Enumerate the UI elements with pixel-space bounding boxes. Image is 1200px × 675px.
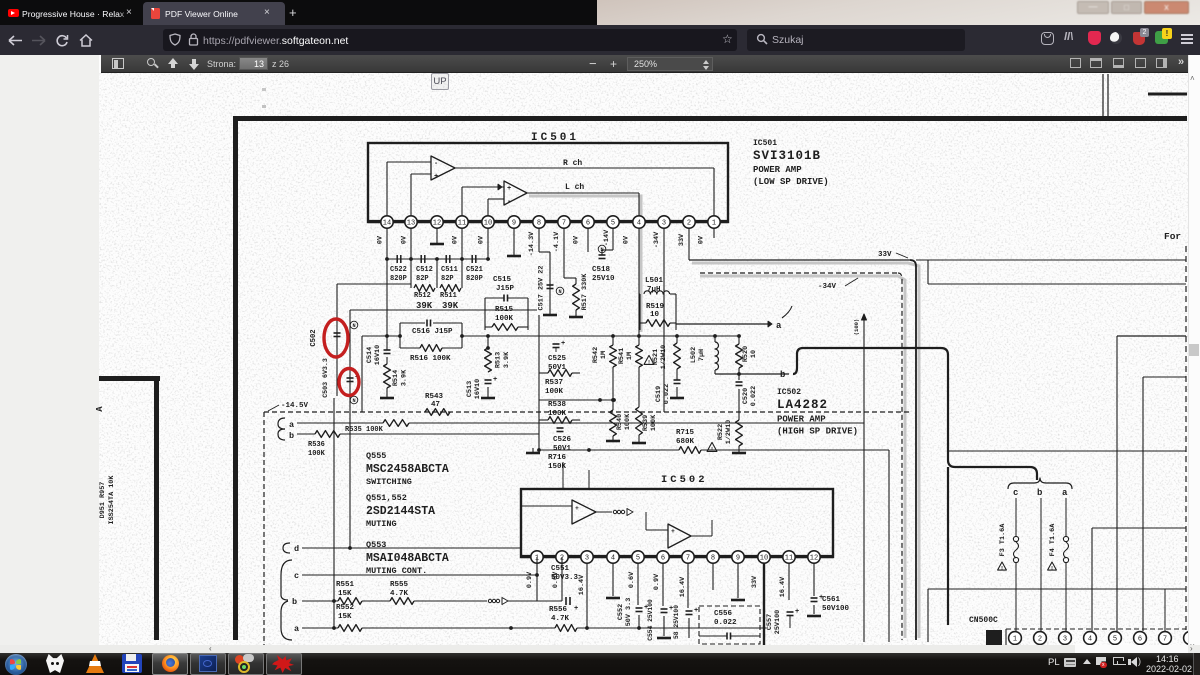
- svg-text:C518: C518: [592, 266, 611, 274]
- svg-text:4: 4: [1088, 636, 1092, 644]
- svg-text:7: 7: [1163, 636, 1167, 644]
- svg-text:+: +: [434, 173, 438, 181]
- svg-text:(LOW SP DRIVE): (LOW SP DRIVE): [753, 177, 829, 187]
- svg-text:SVI3101B: SVI3101B: [753, 149, 821, 163]
- svg-text:16V10: 16V10: [474, 379, 482, 399]
- svg-text:100K: 100K: [650, 414, 658, 431]
- svg-text:1M: 1M: [600, 351, 608, 359]
- svg-text:0V: 0V: [478, 235, 486, 244]
- svg-text:R556: R556: [549, 606, 568, 614]
- svg-text:c: c: [1013, 488, 1018, 498]
- svg-text:a: a: [289, 420, 294, 430]
- svg-text:1/2W10: 1/2W10: [725, 420, 733, 444]
- svg-text:C521: C521: [466, 266, 483, 274]
- svg-text:C526: C526: [553, 436, 572, 444]
- svg-text:7μH: 7μH: [698, 349, 706, 361]
- svg-text:C512: C512: [416, 266, 433, 274]
- svg-text:c: c: [294, 571, 299, 581]
- svg-text:Q555: Q555: [366, 451, 386, 461]
- svg-text:5: 5: [1113, 636, 1117, 644]
- svg-text:R514: R514: [392, 370, 400, 386]
- svg-text:A: A: [95, 406, 105, 412]
- svg-text:58 25V100: 58 25V100: [673, 605, 680, 639]
- svg-text:33V: 33V: [878, 251, 892, 259]
- svg-text:N: N: [558, 289, 561, 295]
- svg-text:50V3.3: 50V3.3: [551, 574, 579, 582]
- svg-text:8: 8: [711, 555, 715, 563]
- svg-text:b: b: [780, 370, 785, 380]
- svg-text:POWER AMP: POWER AMP: [753, 165, 802, 175]
- svg-text:R517 330K: R517 330K: [581, 273, 589, 311]
- svg-text:R539: R539: [642, 415, 650, 431]
- svg-text:5: 5: [611, 220, 615, 228]
- svg-text:0.6V: 0.6V: [628, 571, 636, 588]
- svg-text:d: d: [294, 544, 299, 554]
- svg-text:2SD2144STA: 2SD2144STA: [366, 505, 435, 518]
- svg-text:0V: 0V: [452, 235, 460, 244]
- svg-text:+: +: [574, 605, 578, 613]
- svg-text:3: 3: [662, 220, 666, 228]
- svg-text:IC501: IC501: [753, 139, 777, 148]
- svg-text:R542: R542: [592, 347, 600, 363]
- svg-text:a: a: [1062, 488, 1068, 498]
- svg-text:!: !: [647, 359, 650, 366]
- svg-text:33V: 33V: [678, 233, 686, 246]
- svg-text:!: !: [1050, 565, 1053, 572]
- svg-text:4.7K: 4.7K: [390, 590, 409, 598]
- svg-text:50V1: 50V1: [553, 445, 572, 453]
- svg-text:R540: R540: [616, 414, 624, 430]
- svg-text:L501: L501: [645, 277, 664, 285]
- svg-text:C514: C514: [366, 347, 374, 363]
- svg-text:16.4V: 16.4V: [578, 574, 586, 595]
- svg-text:16V10: 16V10: [374, 345, 382, 365]
- svg-text:0.9V: 0.9V: [526, 571, 534, 588]
- svg-text:C522: C522: [390, 266, 407, 274]
- svg-text:0.9V: 0.9V: [653, 573, 661, 590]
- svg-text:4: 4: [611, 555, 615, 563]
- svg-text:5: 5: [636, 555, 640, 563]
- svg-text:100K: 100K: [308, 450, 326, 458]
- svg-text:2: 2: [1038, 636, 1042, 644]
- svg-text:R541: R541: [618, 348, 626, 364]
- svg-text:R519: R519: [646, 303, 665, 311]
- svg-text:C551: C551: [551, 565, 570, 573]
- svg-text:-14.3V: -14.3V: [528, 231, 536, 256]
- svg-text:J15P: J15P: [496, 285, 515, 293]
- svg-text:4: 4: [637, 220, 641, 228]
- svg-text:25V100: 25V100: [774, 610, 782, 634]
- svg-text:R536: R536: [308, 441, 325, 449]
- svg-text:F4 T1.6A: F4 T1.6A: [1049, 523, 1057, 557]
- svg-text:3.9K: 3.9K: [503, 351, 511, 368]
- svg-text:100K: 100K: [495, 315, 514, 323]
- svg-text:82P: 82P: [441, 275, 454, 283]
- svg-text:LA4282: LA4282: [777, 398, 828, 412]
- svg-text:0V: 0V: [401, 235, 409, 244]
- svg-text:L502: L502: [690, 347, 698, 363]
- svg-text:MUTING: MUTING: [366, 519, 397, 529]
- svg-text:14: 14: [383, 220, 391, 228]
- svg-text:2: 2: [687, 220, 691, 228]
- svg-text:R513: R513: [495, 352, 503, 368]
- svg-text:C561: C561: [822, 596, 841, 604]
- svg-text:0V: 0V: [623, 235, 631, 244]
- svg-text:D951 R957: D951 R957: [99, 482, 107, 519]
- svg-text:R ch: R ch: [563, 159, 582, 168]
- svg-text:+: +: [507, 185, 511, 193]
- svg-text:7: 7: [562, 220, 566, 228]
- svg-text:1M: 1M: [626, 352, 634, 360]
- svg-text:10: 10: [650, 311, 660, 319]
- svg-text:7: 7: [686, 555, 690, 563]
- svg-text:0V: 0V: [377, 235, 385, 244]
- svg-text:3: 3: [585, 555, 589, 563]
- svg-text:C520: C520: [742, 388, 750, 404]
- svg-text:9: 9: [512, 220, 516, 228]
- svg-text:C554 25V100: C554 25V100: [647, 599, 654, 641]
- svg-text:1: 1: [1013, 636, 1017, 644]
- svg-text:R521: R521: [652, 349, 660, 365]
- svg-text:3: 3: [1063, 636, 1067, 644]
- svg-text:-14V: -14V: [603, 229, 611, 246]
- svg-text:C519: C519: [655, 386, 663, 402]
- svg-text:16.4V: 16.4V: [779, 576, 787, 597]
- svg-text:a: a: [776, 321, 782, 331]
- svg-text:b: b: [1037, 488, 1042, 498]
- svg-text:+: +: [575, 505, 579, 512]
- svg-text:7μH: 7μH: [647, 286, 661, 294]
- svg-text:!: !: [710, 446, 713, 453]
- svg-text:11: 11: [785, 555, 793, 563]
- svg-text:-: -: [434, 160, 438, 168]
- svg-text:10: 10: [760, 555, 768, 563]
- svg-text:50V 3.3: 50V 3.3: [625, 598, 633, 627]
- svg-text:F3 T1.6A: F3 T1.6A: [999, 523, 1007, 557]
- svg-text:R520: R520: [742, 346, 750, 362]
- svg-text:6: 6: [661, 555, 665, 563]
- svg-text:C515: C515: [493, 276, 512, 284]
- svg-text:L ch: L ch: [565, 183, 584, 192]
- svg-text:-34V: -34V: [818, 283, 837, 291]
- svg-text:10: 10: [484, 220, 492, 228]
- svg-text:100K: 100K: [545, 388, 564, 396]
- svg-text:C516 J15P: C516 J15P: [412, 328, 453, 336]
- svg-text:R516 100K: R516 100K: [410, 355, 451, 363]
- svg-text:C511: C511: [441, 266, 458, 274]
- svg-text:4.7K: 4.7K: [551, 615, 570, 623]
- svg-text:CN500C: CN500C: [969, 616, 998, 625]
- svg-text:+: +: [561, 340, 565, 348]
- svg-text:8: 8: [537, 220, 541, 228]
- svg-text:12: 12: [810, 555, 818, 563]
- svg-text:+: +: [493, 376, 497, 384]
- svg-text:IC502: IC502: [661, 474, 708, 486]
- svg-text:Q551,552: Q551,552: [366, 493, 407, 503]
- svg-text:R543: R543: [425, 393, 444, 401]
- svg-text:R715: R715: [676, 429, 695, 437]
- svg-text:b: b: [292, 597, 297, 607]
- svg-text:-: -: [507, 198, 511, 206]
- svg-text:25V10: 25V10: [592, 275, 615, 283]
- svg-text:ISS254TA 10K: ISS254TA 10K: [108, 475, 116, 525]
- svg-text:C556: C556: [714, 610, 733, 618]
- svg-text:R522: R522: [717, 424, 725, 440]
- svg-text:C552: C552: [617, 604, 625, 620]
- svg-text:13: 13: [407, 220, 415, 228]
- svg-text:-34V: -34V: [653, 231, 661, 248]
- svg-text:100K: 100K: [624, 413, 632, 430]
- svg-text:C502: C502: [310, 329, 318, 346]
- svg-text:C557: C557: [766, 614, 774, 630]
- svg-text:R512: R512: [414, 292, 431, 300]
- svg-text:R555: R555: [390, 581, 409, 589]
- svg-text:0V: 0V: [573, 235, 581, 244]
- svg-text:47: 47: [431, 401, 440, 409]
- svg-text:R538: R538: [548, 401, 567, 409]
- svg-text:SWITCHING: SWITCHING: [366, 477, 412, 487]
- svg-text:+: +: [795, 608, 799, 616]
- svg-text:50V100: 50V100: [822, 605, 850, 613]
- svg-text:820P: 820P: [466, 275, 483, 283]
- svg-text:680K: 680K: [676, 438, 695, 446]
- svg-text:150K: 150K: [548, 463, 567, 471]
- svg-text:MSC2458ABCTA: MSC2458ABCTA: [366, 463, 449, 476]
- svg-text:33V: 33V: [751, 575, 759, 588]
- svg-text:6: 6: [586, 220, 590, 228]
- svg-text:R716: R716: [548, 454, 567, 462]
- svg-text:15K: 15K: [338, 590, 352, 598]
- svg-text:MSAI048ABCTA: MSAI048ABCTA: [366, 552, 449, 565]
- svg-text:9: 9: [736, 555, 740, 563]
- svg-text:-4.1V: -4.1V: [553, 231, 561, 252]
- svg-text:IC502: IC502: [777, 388, 801, 397]
- svg-text:C503 6V3.3: C503 6V3.3: [322, 358, 329, 398]
- svg-text:1/2W10: 1/2W10: [660, 345, 668, 369]
- svg-text:POWER AMP: POWER AMP: [777, 415, 826, 425]
- svg-text:R511: R511: [440, 292, 457, 300]
- svg-text:+: +: [694, 607, 698, 615]
- svg-text:1: 1: [712, 220, 716, 228]
- svg-text:-14.5V: -14.5V: [281, 402, 309, 410]
- svg-text:R552: R552: [336, 604, 355, 612]
- svg-text:12: 12: [433, 220, 441, 228]
- svg-text:For: For: [1164, 231, 1181, 242]
- svg-text:(HIGH SP DRIVE): (HIGH SP DRIVE): [777, 427, 858, 437]
- svg-text:3.9K: 3.9K: [401, 369, 409, 386]
- svg-text:!: !: [1000, 565, 1003, 572]
- svg-text:C525: C525: [548, 355, 567, 363]
- svg-text:a: a: [294, 624, 299, 634]
- svg-text:0.022: 0.022: [663, 384, 671, 404]
- svg-text:+: +: [671, 528, 675, 535]
- svg-text:0V: 0V: [698, 235, 706, 244]
- svg-text:15K: 15K: [338, 613, 352, 621]
- svg-text:R535 100K: R535 100K: [345, 426, 384, 434]
- svg-text:C513: C513: [466, 381, 474, 397]
- svg-text:82P: 82P: [416, 275, 429, 283]
- svg-text:N: N: [352, 323, 355, 329]
- svg-text:11: 11: [458, 220, 466, 228]
- svg-text:0.022: 0.022: [714, 619, 737, 627]
- svg-text:10: 10: [750, 350, 758, 358]
- svg-text:C517 25V 22: C517 25V 22: [538, 266, 546, 311]
- svg-text:(100): (100): [853, 319, 860, 336]
- svg-text:R551: R551: [336, 581, 355, 589]
- svg-text:b: b: [289, 431, 294, 441]
- svg-text:820P: 820P: [390, 275, 407, 283]
- svg-text:N: N: [352, 398, 355, 404]
- svg-text:R537: R537: [545, 379, 563, 387]
- svg-text:16.4V: 16.4V: [679, 576, 687, 597]
- svg-text:0.022: 0.022: [750, 386, 758, 406]
- svg-text:6: 6: [1138, 636, 1142, 644]
